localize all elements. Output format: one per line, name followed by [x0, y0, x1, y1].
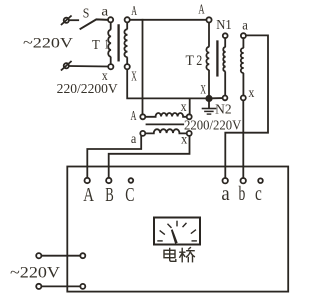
wire: winding x down to bridge terminal b — [242, 101, 244, 178]
glyph 电 — [164, 248, 176, 262]
wire: riser from top bus down to row winding A — [142, 20, 144, 115]
svg-text:A: A — [198, 2, 204, 17]
svg-text:C: C — [125, 185, 134, 206]
terminal top-left (~220V supply, upper) — [62, 16, 71, 24]
meter needle — [171, 229, 178, 243]
svg-text:T: T — [186, 53, 194, 69]
transformer T1 primary winding — [108, 23, 111, 65]
bridge box — [67, 167, 288, 292]
svg-text:N1: N1 — [216, 18, 232, 33]
svg-text:x: x — [181, 133, 187, 148]
glyph 桥 — [179, 247, 195, 262]
meter ticks — [158, 221, 196, 241]
svg-text:c: c — [255, 184, 262, 205]
node X (T1 secondary bottom) — [125, 64, 130, 69]
label 电桥 (hand drawn glyphs) — [164, 247, 195, 262]
wire: row x node to bridge terminal B — [109, 136, 190, 178]
node a (standard winding top) — [241, 33, 246, 38]
svg-text:a: a — [131, 131, 136, 146]
bridge terminal b — [241, 178, 246, 183]
terminal bottom-left (~220V supply, lower) — [62, 62, 71, 70]
svg-text:A: A — [131, 3, 137, 18]
row winding a-x (LV) — [145, 129, 186, 133]
node a (T1 primary top) — [108, 17, 113, 22]
svg-text:X: X — [200, 81, 206, 96]
node x (standard winding bottom) — [241, 95, 246, 100]
node x (T1 primary bottom) — [108, 64, 113, 69]
ground — [203, 101, 216, 114]
transformer T2 secondary winding — [223, 38, 225, 95]
svg-text:A: A — [131, 109, 138, 124]
bridge terminal c — [258, 178, 263, 183]
bridge terminal a — [223, 178, 228, 183]
svg-text:220/2200V: 220/2200V — [57, 81, 118, 96]
wire: winding a to bridge terminal a — [225, 35, 268, 177]
svg-text:a: a — [101, 5, 109, 20]
svg-text:S: S — [83, 7, 90, 22]
svg-text:b: b — [239, 184, 246, 205]
svg-text:B: B — [105, 185, 114, 206]
T1 core — [117, 25, 119, 60]
bridge supply terminal lower — [80, 284, 85, 289]
junction X (T2 primary bottom, earthed) — [206, 96, 211, 101]
svg-text:~220V: ~220V — [10, 264, 61, 281]
meter face — [154, 218, 200, 245]
wire: mains to bridge, lower — [42, 285, 81, 287]
bridge terminal C — [129, 178, 134, 183]
svg-text:N2: N2 — [215, 102, 232, 117]
row winding x node (LV) — [187, 131, 192, 136]
node N2 (T2 secondary bottom) — [223, 96, 228, 101]
node N1 (T2 secondary top) — [223, 33, 228, 38]
T2 core — [216, 42, 218, 76]
svg-text:T: T — [92, 38, 100, 53]
mains terminal upper-left — [36, 253, 41, 258]
wire: mains to bridge, upper — [42, 255, 81, 257]
transformer T2 primary winding — [206, 23, 209, 96]
mains terminal lower-left — [36, 284, 41, 289]
node A (T1 secondary top) — [125, 17, 130, 22]
switch S blade — [81, 19, 108, 28]
wire: lower terminal to T1 primary x — [69, 65, 108, 68]
svg-text:2200/220V: 2200/220V — [184, 118, 242, 133]
wire: junction X to N2 — [212, 97, 223, 99]
svg-text:x: x — [248, 86, 254, 101]
bridge terminal A — [85, 178, 90, 183]
row winding a node (LV) — [140, 131, 145, 136]
svg-text:a: a — [242, 18, 248, 33]
node A (T2 primary top) — [206, 17, 211, 22]
wire: upper terminal to switch contact — [69, 19, 78, 21]
svg-text:2: 2 — [196, 53, 202, 69]
row transformer core — [147, 123, 184, 125]
standard winding a-x — [241, 38, 244, 95]
row winding x node (HV) — [187, 114, 192, 119]
svg-text:1: 1 — [105, 37, 109, 52]
svg-text:A: A — [83, 185, 94, 206]
row winding A-x (HV) — [145, 113, 186, 117]
svg-text:~220V: ~220V — [23, 35, 73, 51]
wire: T1 X down and right to earthed junction — [127, 69, 209, 98]
bridge terminal B — [106, 178, 111, 183]
row winding A node — [140, 114, 145, 119]
svg-text:x: x — [181, 100, 187, 115]
bridge supply terminal upper — [80, 253, 85, 258]
wire: riser from X bus down to row winding x — [189, 98, 191, 114]
wire: top bus from T1 A to T2 A — [130, 19, 206, 21]
wire: row a node to bridge terminal A — [87, 136, 141, 178]
svg-text:a: a — [221, 184, 230, 205]
svg-text:X: X — [131, 69, 137, 84]
transformer T1 secondary winding — [124, 23, 127, 65]
